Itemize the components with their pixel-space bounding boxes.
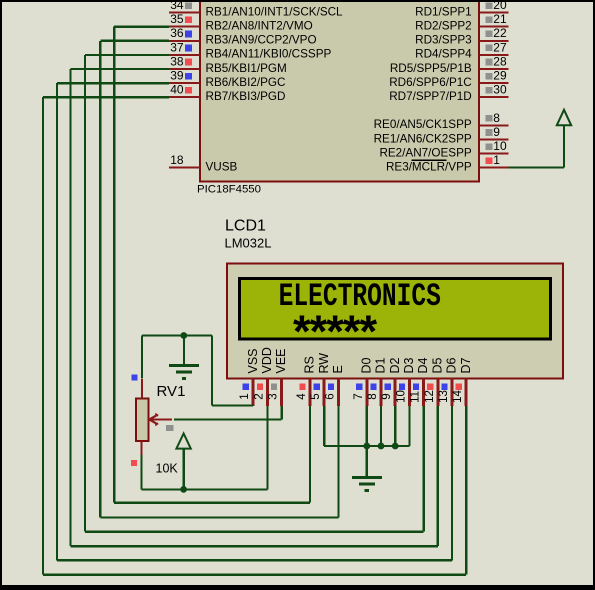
svg-text:5: 5 xyxy=(310,393,322,399)
wire RW-D0..D3 ground bus xyxy=(324,406,409,446)
svg-text:1: 1 xyxy=(239,393,251,399)
ground bottom (LCD data) xyxy=(352,446,382,491)
svg-text:28: 28 xyxy=(493,54,507,68)
node junction D2 xyxy=(392,443,399,450)
LCD pin 14 D7 xyxy=(452,357,473,406)
svg-text:RD2/SPP2: RD2/SPP2 xyxy=(415,20,472,33)
svg-text:1: 1 xyxy=(493,153,500,167)
svg-text:12: 12 xyxy=(424,390,436,403)
wire VSS rail xyxy=(142,336,253,406)
power arrow +V (bottom rail) xyxy=(176,434,190,490)
wire RB2-RS xyxy=(114,27,310,503)
svg-text:14: 14 xyxy=(452,390,464,403)
RV1 square blue xyxy=(132,375,138,381)
pin 1 RE3 stub+number+label xyxy=(386,153,509,173)
svg-text:30: 30 xyxy=(493,83,507,97)
wire RB5-D5 xyxy=(71,69,438,546)
svg-text:RD6/SPP6/P1C: RD6/SPP6/P1C xyxy=(389,76,472,89)
svg-text:RE3/MCLR/VPP: RE3/MCLR/VPP xyxy=(386,161,472,174)
pin 8 RE0 stub+number+label xyxy=(374,111,509,131)
node junction top rail xyxy=(180,332,187,339)
pin 21 RD2 stub+number+label xyxy=(415,12,508,32)
svg-text:*****: ***** xyxy=(288,310,378,362)
svg-text:RB5/KBI1/PGM: RB5/KBI1/PGM xyxy=(206,62,287,75)
svg-text:RE2/AN7/OESPP: RE2/AN7/OESPP xyxy=(379,146,471,159)
svg-text:RD4/SPP4: RD4/SPP4 xyxy=(415,48,472,61)
svg-text:9: 9 xyxy=(381,393,393,399)
svg-text:PIC18F4550: PIC18F4550 xyxy=(197,184,261,196)
pin 34 RB1 stub+number+label xyxy=(169,0,343,18)
svg-text:D5: D5 xyxy=(430,357,444,373)
svg-text:RD7/SPP7/P1D: RD7/SPP7/P1D xyxy=(389,90,472,103)
wire VEE wiper xyxy=(174,406,282,420)
svg-text:10K: 10K xyxy=(156,462,179,476)
svg-text:D4: D4 xyxy=(416,357,430,373)
svg-text:10: 10 xyxy=(395,390,407,403)
RV1 value label 10K xyxy=(156,462,179,476)
svg-text:11: 11 xyxy=(410,391,422,403)
pin 18 VUSB stub+number+label xyxy=(169,153,238,173)
pin 35 RB2 stub+number+label xyxy=(169,12,313,32)
svg-text:D6: D6 xyxy=(445,357,459,373)
pin 9 RE1 stub+number+label xyxy=(374,125,509,145)
svg-text:VUSB: VUSB xyxy=(206,161,238,174)
svg-text:6: 6 xyxy=(324,393,336,399)
svg-text:D0: D0 xyxy=(359,357,373,373)
svg-text:38: 38 xyxy=(170,54,184,68)
svg-text:E: E xyxy=(331,365,345,373)
RV1 square gray wiper xyxy=(166,425,173,431)
svg-text:8: 8 xyxy=(493,111,500,125)
svg-text:RV1: RV1 xyxy=(157,383,186,400)
svg-text:VDD: VDD xyxy=(260,347,274,373)
svg-text:RD5/SPP5/P1B: RD5/SPP5/P1B xyxy=(390,62,472,75)
wire RE3-power xyxy=(509,125,565,167)
LCD1 ref label xyxy=(225,218,266,235)
pin 29 RD6 stub+number+label xyxy=(389,69,508,89)
LCD pin 8 D1 xyxy=(367,357,388,406)
pin 10 RE2 stub+number+label xyxy=(379,139,508,159)
LCD screen xyxy=(240,279,551,340)
LCD pin 10 D3 xyxy=(395,357,416,406)
pin 27 RD4 stub+number+label xyxy=(415,40,508,60)
power arrow +V (RE3/MCLR) xyxy=(557,110,571,126)
ground top (pot top / VSS) xyxy=(169,336,199,379)
pin 20 RD1 stub+number+label xyxy=(415,0,508,18)
pin 38 RB5 stub+number+label xyxy=(169,54,287,74)
svg-text:18: 18 xyxy=(170,153,184,167)
LCD1 value label LM032L xyxy=(225,236,272,251)
svg-text:8: 8 xyxy=(367,393,379,399)
node junction VDD rail xyxy=(180,486,187,493)
LCD pin 3 VEE xyxy=(268,348,289,406)
wire VDD rail xyxy=(142,406,268,489)
svg-text:RB6/KBI2/PGC: RB6/KBI2/PGC xyxy=(206,76,286,89)
svg-text:13: 13 xyxy=(438,390,450,403)
RV1 top lead xyxy=(141,379,143,399)
pin 28 RD5 stub+number+label xyxy=(390,54,509,74)
LCD pin 5 RW xyxy=(310,353,331,406)
svg-text:36: 36 xyxy=(170,26,184,40)
svg-text:9: 9 xyxy=(493,125,500,139)
svg-text:3: 3 xyxy=(268,393,280,399)
LCD pin 4 RS xyxy=(296,356,317,406)
svg-text:39: 39 xyxy=(170,69,184,83)
LCD pin 7 D0 xyxy=(353,357,374,406)
svg-text:37: 37 xyxy=(170,40,184,54)
LCD pin 2 VDD xyxy=(253,347,274,406)
svg-text:RD1/SPP1: RD1/SPP1 xyxy=(415,5,472,18)
svg-text:29: 29 xyxy=(493,69,507,83)
svg-text:LCD1: LCD1 xyxy=(225,218,266,235)
svg-text:2: 2 xyxy=(253,393,265,399)
svg-text:RB7/KBI3/PGD: RB7/KBI3/PGD xyxy=(206,90,286,103)
svg-text:10: 10 xyxy=(493,139,507,153)
svg-text:RE0/AN5/CK1SPP: RE0/AN5/CK1SPP xyxy=(374,118,472,131)
LCD pin 11 D4 xyxy=(410,357,431,406)
LCD pin 12 D5 xyxy=(424,357,445,406)
svg-text:40: 40 xyxy=(170,83,184,97)
U1 label PIC18F4550 xyxy=(197,184,261,196)
IC U1 PIC18F4550 body xyxy=(200,0,479,182)
svg-text:D1: D1 xyxy=(374,357,388,373)
svg-text:35: 35 xyxy=(170,12,184,26)
LCD pin 6 E xyxy=(324,365,345,406)
RV1 bottom lead xyxy=(141,441,143,455)
pin 37 RB4 stub+number+label xyxy=(169,40,332,60)
LCD LCD1 body xyxy=(227,264,563,379)
RV1 wiper arrow xyxy=(149,414,172,426)
svg-text:D2: D2 xyxy=(388,357,402,373)
resistor RV1 body xyxy=(136,399,148,442)
svg-text:RW: RW xyxy=(317,353,331,374)
svg-text:RB4/AN11/KBI0/CSSPP: RB4/AN11/KBI0/CSSPP xyxy=(206,48,332,61)
LCD pin 9 D2 xyxy=(381,357,402,406)
LCD pin 13 D6 xyxy=(438,357,459,406)
node junction D0 xyxy=(363,443,370,450)
wire RB7-D7 xyxy=(43,97,466,574)
pin 40 RB7 stub+number+label xyxy=(169,83,285,103)
pin 22 RD3 stub+number+label xyxy=(415,26,508,46)
pin 39 RB6 stub+number+label xyxy=(169,69,285,89)
pin 30 RD7 stub+number+label xyxy=(389,83,508,103)
node junction D1 xyxy=(378,443,385,450)
svg-text:7: 7 xyxy=(353,393,365,399)
svg-text:RS: RS xyxy=(303,356,317,373)
svg-text:RD3/SPP3: RD3/SPP3 xyxy=(415,34,472,47)
svg-text:D7: D7 xyxy=(459,357,473,373)
svg-text:27: 27 xyxy=(493,40,507,54)
LCD pin 1 VSS xyxy=(239,348,260,406)
svg-text:RB1/AN10/INT1/SCK/SCL: RB1/AN10/INT1/SCK/SCL xyxy=(206,5,344,18)
svg-text:21: 21 xyxy=(493,12,507,26)
RV1 ref label xyxy=(157,383,186,400)
svg-text:RE1/AN6/CK2SPP: RE1/AN6/CK2SPP xyxy=(374,132,472,145)
svg-text:VSS: VSS xyxy=(246,348,260,373)
svg-text:VEE: VEE xyxy=(274,348,288,373)
wire RB4-D4 xyxy=(85,55,424,532)
svg-text:RB3/AN9/CCP2/VPO: RB3/AN9/CCP2/VPO xyxy=(206,34,317,47)
LCD text ELECTRONICS xyxy=(279,278,441,315)
wire RB6-D6 xyxy=(57,83,452,560)
svg-text:RB2/AN8/INT2/VMO: RB2/AN8/INT2/VMO xyxy=(206,20,313,33)
svg-text:4: 4 xyxy=(296,393,308,400)
svg-text:D3: D3 xyxy=(402,357,416,373)
svg-text:22: 22 xyxy=(493,26,507,40)
RV1 square red xyxy=(131,460,137,466)
pin 36 RB3 stub+number+label xyxy=(169,26,317,46)
wire RB3-E xyxy=(100,41,338,518)
svg-text:LM032L: LM032L xyxy=(225,236,272,251)
